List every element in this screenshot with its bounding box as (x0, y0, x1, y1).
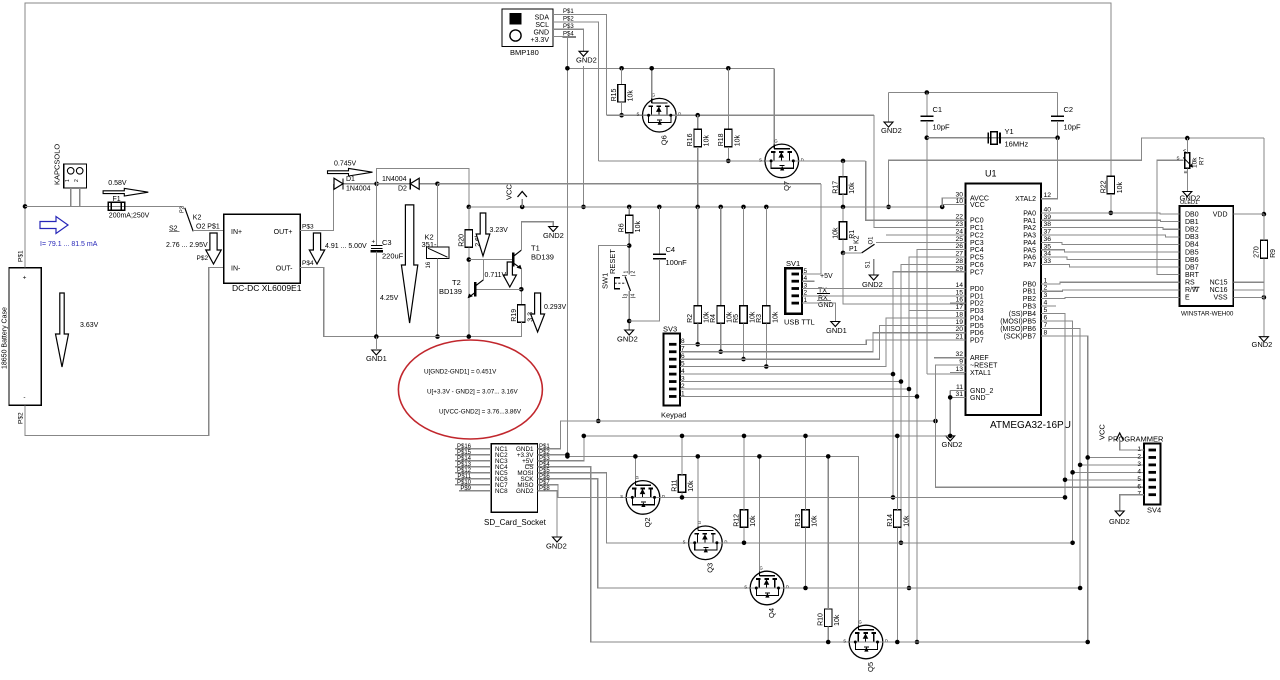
svg-text:Q4: Q4 (767, 608, 776, 618)
svg-text:3: 3 (681, 375, 685, 382)
svg-text:GND: GND (533, 29, 549, 36)
svg-text:DB6: DB6 (1185, 257, 1199, 264)
svg-text:I= 79.1 ... 81.5 mA: I= 79.1 ... 81.5 mA (40, 241, 98, 248)
svg-text:10k: 10k (628, 90, 635, 102)
svg-text:OUT-: OUT- (276, 266, 293, 273)
svg-text:PA6: PA6 (1023, 255, 1036, 262)
svg-text:PC1: PC1 (970, 225, 984, 232)
svg-text:R20: R20 (458, 234, 465, 247)
svg-text:VCC: VCC (970, 202, 985, 209)
svg-text:25: 25 (955, 236, 963, 243)
svg-text:3: 3 (1137, 461, 1141, 468)
svg-text:Y1: Y1 (1005, 127, 1014, 136)
svg-text:D2: D2 (398, 186, 407, 193)
svg-text:4: 4 (1137, 468, 1141, 475)
svg-text:PB3: PB3 (1023, 304, 1036, 311)
svg-text:PD1: PD1 (970, 293, 984, 300)
svg-text:12: 12 (1044, 192, 1052, 199)
svg-text:SV4: SV4 (1147, 506, 1161, 515)
svg-text:S: S (843, 639, 846, 644)
svg-text:11: 11 (956, 384, 963, 391)
svg-text:PA5: PA5 (1023, 247, 1036, 254)
svg-text:R/W: R/W (1185, 287, 1199, 294)
svg-text:XTAL1: XTAL1 (970, 370, 991, 377)
svg-text:2.76 ... 2.95V: 2.76 ... 2.95V (166, 242, 208, 249)
svg-text:SV1: SV1 (786, 259, 800, 268)
svg-text:2: 2 (631, 271, 637, 274)
svg-text:SCL: SCL (535, 22, 549, 29)
svg-text:R6: R6 (619, 223, 626, 232)
svg-text:40: 40 (1044, 206, 1052, 213)
svg-text:P$2: P$2 (18, 412, 25, 424)
svg-text:33: 33 (1044, 258, 1052, 265)
svg-text:16MHz: 16MHz (1005, 140, 1029, 149)
svg-text:D: D (724, 539, 727, 544)
svg-text:GND2: GND2 (1109, 517, 1130, 526)
svg-text:R3: R3 (756, 314, 763, 323)
svg-text:P$3: P$3 (302, 224, 314, 231)
svg-text:10k: 10k (812, 515, 819, 527)
svg-text:~RESET: ~RESET (970, 363, 998, 370)
svg-text:DB4: DB4 (1185, 242, 1199, 249)
svg-text:XTAL2: XTAL2 (1015, 196, 1036, 203)
svg-text:DB7: DB7 (1185, 264, 1199, 271)
svg-text:D: D (885, 639, 888, 644)
svg-text:10k: 10k (772, 311, 779, 323)
svg-text:Q5: Q5 (866, 662, 875, 672)
svg-text:+: + (372, 240, 376, 246)
svg-text:PB2: PB2 (1023, 296, 1036, 303)
svg-text:GND2: GND2 (576, 56, 597, 65)
svg-text:23: 23 (955, 221, 963, 228)
svg-text:PA1: PA1 (1023, 218, 1036, 225)
svg-text:PD7: PD7 (970, 338, 984, 345)
svg-text:PD3: PD3 (970, 308, 984, 315)
svg-text:13: 13 (955, 366, 963, 373)
svg-text:GND2: GND2 (543, 231, 564, 240)
svg-text:GND2: GND2 (1180, 194, 1201, 203)
svg-text:PC7: PC7 (970, 269, 984, 276)
svg-text:S1: S1 (866, 260, 872, 268)
svg-text:Q6: Q6 (659, 135, 668, 145)
svg-text:ATMEGA32-16PU: ATMEGA32-16PU (990, 420, 1071, 431)
svg-text:U[VCC-GND2] = 3.76...3.86V: U[VCC-GND2] = 3.76...3.86V (439, 409, 522, 416)
svg-text:VCC: VCC (505, 184, 514, 200)
svg-text:3: 3 (624, 294, 630, 297)
svg-text:0.58V: 0.58V (108, 180, 127, 187)
svg-text:36: 36 (1044, 236, 1052, 243)
svg-text:38: 38 (1044, 221, 1052, 228)
svg-text:R10: R10 (818, 613, 825, 626)
svg-text:R12: R12 (734, 514, 741, 527)
svg-text:C4: C4 (666, 245, 676, 254)
svg-text:37: 37 (1044, 229, 1052, 236)
svg-text:6: 6 (1044, 314, 1048, 321)
svg-text:PB0: PB0 (1023, 281, 1036, 288)
svg-text:Keypad: Keypad (661, 411, 686, 420)
svg-text:PC5: PC5 (970, 255, 984, 262)
svg-text:PC4: PC4 (970, 247, 984, 254)
svg-text:GND2: GND2 (862, 280, 883, 289)
svg-text:1N4004: 1N4004 (346, 186, 371, 193)
svg-text:3.63V: 3.63V (80, 322, 99, 329)
svg-text:10k: 10k (1192, 157, 1199, 168)
svg-text:U[+3.3V - GND2] = 3.07... 3.16: U[+3.3V - GND2] = 3.07... 3.16V (427, 389, 518, 396)
svg-text:C1: C1 (933, 105, 943, 114)
svg-text:(SS)PB4: (SS)PB4 (1009, 311, 1036, 318)
svg-text:BD139: BD139 (439, 287, 462, 296)
svg-text:R13: R13 (795, 514, 802, 527)
svg-text:(SCK)PB7: (SCK)PB7 (1004, 333, 1036, 340)
svg-text:SD_Card_Socket: SD_Card_Socket (484, 518, 547, 527)
svg-text:PD6: PD6 (970, 330, 984, 337)
svg-text:G: G (652, 93, 655, 98)
svg-text:+3.3V: +3.3V (531, 37, 550, 44)
svg-text:RESET: RESET (608, 249, 617, 274)
svg-text:34: 34 (1044, 251, 1052, 258)
svg-text:PC3: PC3 (970, 240, 984, 247)
svg-text:24: 24 (955, 228, 963, 235)
svg-text:4: 4 (681, 368, 685, 375)
svg-text:PD4: PD4 (970, 315, 984, 322)
svg-text:S: S (759, 157, 762, 162)
svg-text:220uF: 220uF (382, 252, 404, 261)
svg-text:PB1: PB1 (1023, 289, 1036, 296)
svg-text:R18: R18 (718, 133, 725, 146)
svg-text:2: 2 (681, 383, 685, 390)
svg-text:D1: D1 (346, 176, 355, 183)
svg-text:R22: R22 (1100, 180, 1107, 193)
svg-text:32: 32 (955, 351, 963, 358)
svg-text:P$1: P$1 (18, 250, 25, 262)
svg-text:D: D (678, 112, 681, 117)
svg-text:AREF: AREF (970, 355, 989, 362)
svg-text:DB3: DB3 (1185, 234, 1199, 241)
svg-text:BMP180: BMP180 (510, 48, 539, 57)
svg-text:G: G (774, 138, 777, 143)
svg-text:DB1: DB1 (1185, 219, 1199, 226)
svg-text:4: 4 (631, 294, 637, 297)
svg-text:10pF: 10pF (933, 123, 951, 132)
svg-text:R17: R17 (833, 181, 840, 194)
svg-text:U[GND2-GND1] = 0.451V: U[GND2-GND1] = 0.451V (424, 369, 497, 376)
svg-text:PD5: PD5 (970, 323, 984, 330)
svg-text:SV3: SV3 (663, 325, 677, 334)
svg-text:Q7: Q7 (782, 181, 791, 191)
svg-text:BD139: BD139 (531, 253, 554, 262)
svg-text:2: 2 (74, 179, 80, 182)
svg-text:31: 31 (955, 391, 963, 398)
svg-text:R9: R9 (1270, 249, 1277, 258)
svg-text:GND2: GND2 (881, 126, 902, 135)
svg-text:-: - (23, 394, 25, 401)
svg-text:R4: R4 (710, 314, 717, 323)
svg-text:PA7: PA7 (1023, 262, 1036, 269)
svg-text:Q2: Q2 (643, 517, 652, 527)
svg-text:6: 6 (681, 353, 685, 360)
svg-text:O2 P$1: O2 P$1 (196, 224, 220, 231)
svg-text:351-: 351- (422, 240, 438, 249)
svg-text:VCC: VCC (1098, 424, 1107, 440)
svg-text:18650 Battery Case: 18650 Battery Case (2, 307, 9, 369)
svg-text:S: S (620, 494, 623, 499)
svg-text:PC2: PC2 (970, 232, 984, 239)
svg-text:R16: R16 (687, 133, 694, 146)
svg-text:4: 4 (1044, 300, 1048, 307)
svg-text:P$4: P$4 (302, 260, 314, 267)
svg-text:GND2: GND2 (1252, 340, 1273, 349)
svg-text:PA4: PA4 (1023, 240, 1036, 247)
svg-text:G: G (636, 475, 639, 480)
svg-text:K2: K2 (854, 235, 861, 244)
svg-text:D: D (786, 585, 789, 590)
svg-text:S: S (744, 585, 747, 590)
svg-text:0.293V: 0.293V (544, 304, 567, 311)
svg-text:GND: GND (970, 395, 986, 402)
svg-text:1: 1 (1044, 277, 1048, 284)
svg-text:200mA;250V: 200mA;250V (109, 213, 150, 220)
svg-text:22: 22 (955, 214, 963, 221)
svg-text:PA2: PA2 (1023, 225, 1036, 232)
svg-text:PC0: PC0 (970, 218, 984, 225)
svg-text:100nF: 100nF (666, 258, 688, 267)
svg-text:F1: F1 (113, 196, 121, 203)
svg-text:G: G (859, 619, 862, 624)
svg-text:0.711V: 0.711V (485, 272, 507, 279)
svg-text:35: 35 (1044, 243, 1052, 250)
svg-text:OUT+: OUT+ (274, 229, 293, 236)
svg-text:+: + (23, 275, 27, 282)
svg-text:3: 3 (1044, 292, 1048, 299)
svg-text:GND1: GND1 (826, 326, 847, 335)
svg-text:Q3: Q3 (705, 563, 714, 573)
svg-text:PA0: PA0 (1023, 210, 1036, 217)
svg-text:5: 5 (1137, 476, 1141, 483)
svg-text:R7: R7 (1199, 156, 1206, 165)
svg-text:RS: RS (1185, 280, 1195, 287)
svg-text:10k: 10k (704, 135, 711, 147)
svg-text:DB5: DB5 (1185, 249, 1199, 256)
svg-text:270: 270 (1253, 246, 1260, 258)
svg-text:C3: C3 (382, 238, 392, 247)
svg-text:E: E (1185, 295, 1190, 302)
svg-text:1: 1 (65, 179, 71, 182)
svg-text:U1: U1 (985, 169, 997, 179)
svg-text:8: 8 (1044, 329, 1048, 336)
svg-text:6: 6 (1137, 483, 1141, 490)
svg-text:10k: 10k (833, 227, 840, 239)
svg-text:A: A (1182, 149, 1187, 152)
svg-text:R11: R11 (672, 479, 679, 491)
svg-text:SDA: SDA (535, 15, 550, 22)
svg-text:16: 16 (955, 297, 963, 304)
svg-text:T1: T1 (531, 244, 540, 253)
svg-text:NC16: NC16 (1210, 287, 1228, 294)
svg-text:10k: 10k (635, 221, 642, 233)
svg-text:0.745V: 0.745V (334, 161, 357, 168)
svg-text:10k: 10k (734, 135, 741, 147)
svg-text:10k: 10k (688, 480, 695, 492)
svg-text:1N4004: 1N4004 (382, 176, 407, 183)
svg-text:4.91 ... 5.00V: 4.91 ... 5.00V (325, 243, 367, 250)
svg-text:P$2: P$2 (197, 255, 209, 262)
svg-text:+5V: +5V (820, 273, 833, 280)
svg-text:3: 3 (804, 282, 808, 289)
svg-text:10k: 10k (834, 614, 841, 626)
svg-text:R19: R19 (511, 309, 518, 322)
svg-text:NC8: NC8 (495, 488, 508, 495)
svg-text:O1: O1 (869, 236, 875, 245)
svg-text:PD0: PD0 (970, 286, 984, 293)
svg-text:10pF: 10pF (1064, 123, 1082, 132)
svg-text:7: 7 (1044, 322, 1048, 329)
svg-text:1: 1 (624, 271, 630, 274)
svg-text:GND2: GND2 (516, 488, 534, 495)
svg-text:10: 10 (955, 198, 963, 205)
svg-text:USB TTL: USB TTL (784, 318, 815, 327)
svg-text:10k: 10k (1117, 182, 1124, 194)
svg-text:DC-DC XL6009E1: DC-DC XL6009E1 (232, 283, 302, 293)
svg-text:PA3: PA3 (1023, 233, 1036, 240)
svg-text:BRT: BRT (1185, 272, 1200, 279)
svg-text:3.23V: 3.23V (490, 227, 509, 234)
svg-text:1: 1 (681, 390, 685, 397)
svg-text:GND1: GND1 (366, 354, 387, 363)
svg-text:PC6: PC6 (970, 262, 984, 269)
svg-text:R5: R5 (733, 314, 740, 323)
svg-text:1: 1 (804, 297, 808, 304)
svg-text:KAPCSOLO: KAPCSOLO (53, 144, 62, 185)
svg-text:D: D (662, 494, 665, 499)
svg-text:SW1: SW1 (601, 273, 610, 289)
svg-text:P2: P2 (180, 206, 186, 213)
svg-text:GND2: GND2 (942, 440, 963, 449)
svg-text:VSS: VSS (1213, 295, 1227, 302)
svg-text:GND2: GND2 (546, 542, 567, 551)
svg-text:GND_2: GND_2 (970, 388, 993, 395)
svg-text:NC15: NC15 (1210, 280, 1228, 287)
svg-text:VDD: VDD (1213, 211, 1228, 218)
svg-text:7: 7 (681, 346, 685, 353)
svg-text:P$8: P$8 (539, 486, 550, 492)
svg-text:10k: 10k (750, 515, 757, 527)
svg-text:4.25V: 4.25V (380, 295, 399, 302)
svg-text:(MISO)PB6: (MISO)PB6 (1000, 326, 1036, 333)
svg-text:16: 16 (426, 261, 432, 268)
svg-text:DB0: DB0 (1185, 211, 1199, 218)
svg-text:DB2: DB2 (1185, 227, 1199, 234)
svg-text:WINSTAR-WEH00: WINSTAR-WEH00 (1181, 311, 1234, 318)
svg-text:P1: P1 (849, 246, 858, 253)
svg-text:C2: C2 (1064, 105, 1074, 114)
svg-text:R2: R2 (687, 314, 694, 323)
svg-text:G: G (698, 520, 701, 525)
svg-text:R14: R14 (887, 514, 894, 527)
svg-text:(MOSI)PB5: (MOSI)PB5 (1000, 318, 1036, 325)
svg-text:G: G (760, 565, 763, 570)
svg-text:5: 5 (1044, 307, 1048, 314)
svg-text:R15: R15 (611, 88, 618, 101)
svg-text:IN+: IN+ (231, 229, 242, 236)
svg-text:GND2: GND2 (617, 335, 638, 344)
svg-text:10k: 10k (903, 515, 910, 527)
svg-text:PD2: PD2 (970, 301, 984, 308)
svg-text:K2: K2 (193, 214, 202, 221)
svg-text:D: D (801, 157, 804, 162)
svg-text:10k: 10k (849, 182, 856, 194)
svg-text:S: S (683, 539, 686, 544)
svg-text:5: 5 (681, 360, 685, 367)
svg-text:P$9: P$9 (460, 486, 471, 492)
svg-text:IN-: IN- (231, 266, 241, 273)
svg-text:2: 2 (1044, 285, 1048, 292)
svg-text:39: 39 (1044, 214, 1052, 221)
svg-text:T2: T2 (452, 278, 461, 287)
svg-text:8: 8 (681, 338, 685, 345)
svg-text:2: 2 (1137, 453, 1141, 460)
svg-text:S: S (637, 112, 640, 117)
svg-text:2: 2 (804, 290, 808, 297)
